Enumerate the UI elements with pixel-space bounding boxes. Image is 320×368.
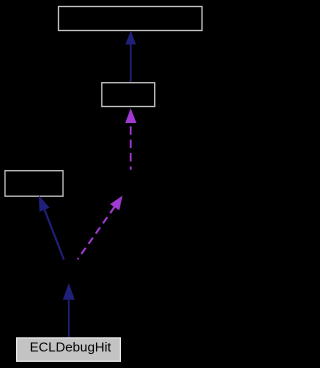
node box (middle class, label hidden) [102, 83, 155, 107]
wire: dashed usage edge diagonal from junction label [78, 207, 115, 259]
wire: solid edge from ECLDebugHit up to junction label [68, 300, 70, 338]
svg-text:ECLDebugHit: ECLDebugHit [30, 340, 112, 355]
node box (left base class, label hidden) [5, 171, 63, 197]
node ECLDebugHit (current class, filled) [17, 338, 121, 361]
node box (top base class, label hidden) [59, 7, 203, 31]
wire: solid inheritance edge middle box to top box [130, 44, 132, 83]
arrowhead of usage edge into middle box [125, 108, 136, 123]
arrowhead of diagonal usage edge [110, 196, 123, 211]
wire: solid inheritance edge from junction label to left box [45, 210, 64, 260]
arrowhead of inheritance edge into top box [125, 31, 136, 45]
arrowhead of ECLDebugHit edge [63, 283, 75, 300]
wire: dashed usage edge segment up to middle box [130, 123, 132, 170]
arrowhead of inheritance edge into left box [39, 195, 50, 211]
